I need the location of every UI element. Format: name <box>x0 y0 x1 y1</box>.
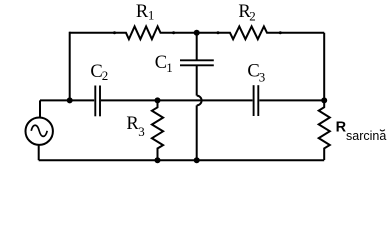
capacitor C1 <box>180 59 214 61</box>
wire segment join nub <box>279 31 282 34</box>
wire C1 branch lower with hop over middle rail <box>196 65 198 95</box>
wire middle rail center segment (C2 to C3) <box>101 99 253 101</box>
node junction dot top rail / C1 <box>194 30 200 36</box>
AC source V1 circle <box>26 118 53 145</box>
capacitor C3 <box>253 85 255 116</box>
wire source top lead <box>39 100 41 117</box>
wire middle rail right segment (C3 to load) <box>259 99 324 101</box>
wire segment join nub <box>172 31 175 34</box>
svg-text:2: 2 <box>249 8 256 23</box>
svg-text:1: 1 <box>166 60 173 75</box>
wire C1 branch top (top rail down to C1) <box>196 33 198 60</box>
node junction dot middle rail / R3 top <box>155 97 161 103</box>
node junction dot middle rail / Rsarcina <box>321 97 327 103</box>
breve accent of sarcină <box>380 130 385 131</box>
wire C1 branch to bottom rail <box>196 105 198 160</box>
node junction dot middle rail / left vertical <box>67 97 73 103</box>
svg-text:3: 3 <box>259 69 266 84</box>
resistor R3 (vertical) <box>152 100 163 160</box>
node junction dot bottom rail / C1 branch <box>194 157 200 163</box>
wire top rail with resistors R1 and R2 <box>69 26 324 39</box>
wire bottom rail <box>39 159 325 161</box>
capacitor C2 <box>94 86 96 117</box>
wire source bottom lead <box>38 145 40 161</box>
svg-text:sarcina: sarcina <box>346 129 386 143</box>
svg-text:2: 2 <box>102 68 109 83</box>
wire left vertical (top rail to middle rail) <box>69 32 71 101</box>
wire segment join nub <box>217 31 220 34</box>
wire crossover hop <box>197 96 202 106</box>
svg-text:1: 1 <box>148 8 155 23</box>
wire middle rail left segment (source to C2) <box>40 99 94 101</box>
node junction dot bottom rail / R3 bottom <box>155 157 161 163</box>
svg-text:3: 3 <box>138 124 145 139</box>
AC source sine wave <box>31 125 47 136</box>
wire segment join nub <box>113 31 116 34</box>
svg-text:R: R <box>336 120 347 136</box>
resistor Rsarcina (vertical, right rail) <box>319 33 330 160</box>
svg-text:C: C <box>155 53 167 73</box>
